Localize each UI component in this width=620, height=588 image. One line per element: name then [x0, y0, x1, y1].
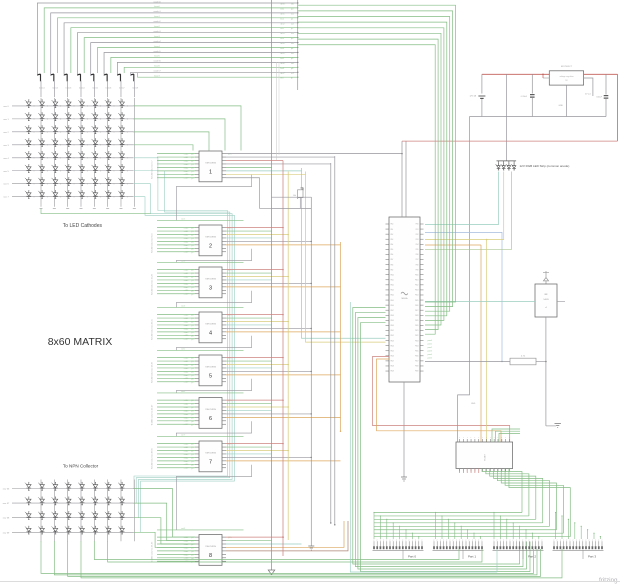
- svg-text:PB10: PB10: [415, 274, 419, 276]
- svg-text:row 0: row 0: [3, 105, 9, 108]
- svg-text:colA3: colA3: [184, 237, 189, 240]
- svg-text:colA4: colA4: [184, 327, 189, 330]
- svg-text:colA2: colA2: [184, 320, 189, 323]
- svg-text:rowdrv0: rowdrv0: [153, 1, 161, 3]
- svg-text:5V out: 5V out: [585, 93, 591, 96]
- svg-text:colA3: colA3: [184, 324, 189, 327]
- svg-text:colA4: colA4: [184, 240, 189, 243]
- svg-text:base1: base1: [154, 16, 160, 18]
- svg-text:colA7: colA7: [184, 338, 189, 341]
- svg-text:voltage regulator: voltage regulator: [559, 75, 573, 78]
- svg-text:row 5: row 5: [3, 170, 9, 173]
- svg-text:colA2: colA2: [184, 275, 189, 278]
- svg-text:PB13: PB13: [415, 290, 419, 292]
- svg-text:trans5: trans5: [92, 87, 98, 90]
- svg-text:1: 1: [209, 170, 212, 176]
- svg-text:PB6: PB6: [416, 254, 419, 256]
- svg-text:To LED Columns 48-55: To LED Columns 48-55: [152, 447, 154, 469]
- svg-text:ser4: ser4: [181, 305, 185, 307]
- svg-text:colA5: colA5: [184, 286, 189, 289]
- svg-text:colA4: colA4: [184, 550, 189, 553]
- svg-text:colA2: colA2: [184, 449, 189, 452]
- svg-text:fritzing: fritzing: [599, 577, 618, 584]
- svg-text:row 3: row 3: [3, 144, 9, 147]
- svg-text:PB24: PB24: [415, 345, 419, 347]
- svg-text:trans4: trans4: [79, 87, 85, 90]
- svg-text:PB29: PB29: [415, 371, 419, 373]
- svg-text:74HC595N: 74HC595N: [205, 453, 216, 455]
- svg-text:To LED Columns 8-15: To LED Columns 8-15: [152, 233, 154, 253]
- svg-text:trans3: trans3: [66, 87, 72, 90]
- svg-text:To LED Cathodes: To LED Cathodes: [63, 223, 103, 229]
- svg-text:base2: base2: [154, 26, 160, 28]
- svg-text:trans8: trans8: [132, 87, 138, 90]
- svg-text:row 58: row 58: [3, 517, 10, 520]
- svg-text:PB21: PB21: [415, 330, 419, 332]
- svg-text:PB25: PB25: [415, 350, 419, 352]
- svg-text:colA0: colA0: [184, 536, 189, 539]
- svg-text:ser3: ser3: [181, 260, 185, 262]
- svg-text:PB26: PB26: [415, 356, 419, 358]
- svg-text:6: 6: [209, 416, 212, 422]
- svg-text:To NPN Collector: To NPN Collector: [63, 464, 99, 469]
- svg-text:trans6: trans6: [106, 87, 112, 90]
- svg-text:colA4: colA4: [184, 282, 189, 285]
- svg-text:colA0: colA0: [184, 357, 189, 360]
- svg-text:row 1: row 1: [3, 118, 9, 121]
- svg-text:colA0: colA0: [184, 227, 189, 230]
- svg-text:colA1: colA1: [184, 272, 189, 275]
- svg-text:trans1: trans1: [39, 87, 45, 90]
- svg-text:colA0: colA0: [184, 314, 189, 317]
- svg-text:10k: 10k: [293, 195, 296, 197]
- svg-text:colA5: colA5: [184, 331, 189, 334]
- svg-text:colA2: colA2: [184, 406, 189, 409]
- svg-text:PB0: PB0: [416, 224, 419, 226]
- svg-text:MEGA: MEGA: [402, 297, 409, 300]
- svg-text:colA3: colA3: [184, 453, 189, 456]
- svg-text:12V RGB LED Strip (common anod: 12V RGB LED Strip (common anode): [520, 164, 570, 168]
- svg-text:base6: base6: [154, 66, 160, 68]
- svg-text:74HC595N: 74HC595N: [205, 163, 216, 165]
- svg-text:PB8: PB8: [416, 264, 419, 266]
- svg-text:pwm2: pwm2: [428, 347, 433, 349]
- svg-text:row 57: row 57: [3, 502, 10, 505]
- svg-text:colA6: colA6: [184, 289, 189, 292]
- svg-text:PB15: PB15: [415, 300, 419, 302]
- svg-text:colA2: colA2: [184, 233, 189, 236]
- svg-text:colA5: colA5: [184, 416, 189, 419]
- svg-text:rowdrv2: rowdrv2: [153, 21, 161, 23]
- svg-text:rowdrv1: rowdrv1: [153, 11, 161, 13]
- svg-text:rowdrv4: rowdrv4: [153, 41, 161, 43]
- svg-text:colA0: colA0: [184, 443, 189, 446]
- svg-text:colA1: colA1: [184, 156, 189, 159]
- svg-text:PB28: PB28: [415, 366, 419, 368]
- svg-text:PB11: PB11: [415, 279, 419, 281]
- svg-text:colA7: colA7: [184, 381, 189, 384]
- svg-text:74HC595N: 74HC595N: [205, 409, 216, 411]
- svg-text:pwm3: pwm3: [428, 351, 433, 353]
- svg-text:8: 8: [209, 553, 212, 559]
- svg-text:To LED Columns 32-39: To LED Columns 32-39: [152, 361, 154, 383]
- svg-text:R-NET: R-NET: [484, 453, 486, 460]
- svg-text:3: 3: [209, 286, 212, 292]
- svg-text:colA7: colA7: [184, 293, 189, 296]
- svg-text:GND: GND: [471, 403, 476, 405]
- svg-text:PB4: PB4: [416, 244, 419, 246]
- svg-text:To LED Columns 24-31: To LED Columns 24-31: [152, 318, 154, 340]
- svg-text:PB23: PB23: [415, 340, 419, 342]
- svg-text:4: 4: [209, 331, 212, 337]
- svg-text:colA0: colA0: [184, 399, 189, 402]
- svg-text:74HC595N: 74HC595N: [205, 367, 216, 369]
- svg-text:colA1: colA1: [184, 230, 189, 233]
- svg-text:colA6: colA6: [184, 377, 189, 380]
- svg-text:colA4: colA4: [184, 413, 189, 416]
- svg-text:colA6: colA6: [184, 173, 189, 176]
- svg-text:pwm4: pwm4: [428, 354, 433, 356]
- svg-text:PB19: PB19: [415, 320, 419, 322]
- svg-text:colA7: colA7: [184, 423, 189, 426]
- svg-text:base0: base0: [154, 6, 160, 8]
- svg-text:rowdrv3: rowdrv3: [153, 31, 161, 33]
- svg-text:colA7: colA7: [184, 467, 189, 470]
- svg-text:5: 5: [209, 374, 212, 380]
- svg-text:colA4: colA4: [184, 166, 189, 169]
- svg-text:GND: GND: [559, 105, 564, 107]
- svg-text:PB16: PB16: [415, 305, 419, 307]
- svg-text:colA7: colA7: [184, 177, 189, 180]
- svg-text:colA5: colA5: [184, 244, 189, 247]
- svg-text:12V 3A: 12V 3A: [469, 95, 476, 98]
- svg-text:base4: base4: [154, 46, 160, 48]
- svg-text:base3: base3: [154, 36, 160, 38]
- svg-text:PB9: PB9: [416, 269, 419, 271]
- svg-text:7: 7: [209, 460, 212, 466]
- svg-text:PB3: PB3: [416, 239, 419, 241]
- svg-text:trans7: trans7: [119, 87, 125, 90]
- svg-text:colA1: colA1: [184, 539, 189, 542]
- svg-text:colA1: colA1: [184, 402, 189, 405]
- svg-text:PB7: PB7: [416, 259, 419, 261]
- svg-text:100uF: 100uF: [596, 97, 602, 99]
- svg-text:ser7: ser7: [181, 434, 185, 436]
- svg-text:colA5: colA5: [184, 374, 189, 377]
- svg-text:row 7: row 7: [3, 196, 9, 199]
- svg-text:PB5: PB5: [416, 249, 419, 251]
- svg-text:pwm0: pwm0: [428, 340, 433, 342]
- svg-text:colA6: colA6: [184, 420, 189, 423]
- svg-text:540N: 540N: [543, 299, 549, 301]
- svg-text:8x60 MATRIX: 8x60 MATRIX: [48, 336, 113, 348]
- svg-text:74HC595N: 74HC595N: [205, 237, 216, 239]
- svg-text:To LED Columns 40-47: To LED Columns 40-47: [152, 404, 154, 426]
- svg-text:2: 2: [209, 244, 212, 250]
- svg-text:colA4: colA4: [184, 456, 189, 459]
- svg-text:74HC595N: 74HC595N: [205, 546, 216, 548]
- svg-text:colA3: colA3: [184, 279, 189, 282]
- svg-text:0.33uF: 0.33uF: [521, 96, 528, 98]
- svg-text:PB1: PB1: [416, 229, 419, 231]
- svg-text:To LED Columns 16-23: To LED Columns 16-23: [152, 273, 154, 295]
- svg-text:pwm1: pwm1: [428, 344, 433, 346]
- svg-text:row 6: row 6: [3, 183, 9, 186]
- svg-text:rowdrv7: rowdrv7: [153, 71, 161, 73]
- svg-text:base7: base7: [154, 76, 160, 78]
- svg-text:rowdrv5: rowdrv5: [153, 51, 161, 53]
- svg-text:Part 0: Part 0: [408, 555, 416, 559]
- svg-text:colA1: colA1: [184, 317, 189, 320]
- svg-text:PB22: PB22: [415, 335, 419, 337]
- svg-text:rowdrv6: rowdrv6: [153, 61, 161, 63]
- svg-text:colA4: colA4: [184, 370, 189, 373]
- svg-text:MC7805CT: MC7805CT: [561, 66, 573, 68]
- svg-text:PB27: PB27: [415, 361, 419, 363]
- svg-text:colA5: colA5: [184, 553, 189, 556]
- svg-text:row 56: row 56: [3, 488, 10, 491]
- svg-text:Part 1: Part 1: [468, 555, 476, 559]
- svg-text:colA5: colA5: [184, 460, 189, 463]
- svg-text:colA2: colA2: [184, 363, 189, 366]
- svg-text:PB20: PB20: [415, 325, 419, 327]
- svg-text:trans2: trans2: [52, 87, 58, 90]
- svg-text:ser8: ser8: [181, 528, 185, 530]
- svg-text:ser6: ser6: [181, 391, 185, 393]
- svg-text:colA2: colA2: [184, 159, 189, 162]
- svg-text:colA7: colA7: [184, 251, 189, 254]
- svg-text:74HC595N: 74HC595N: [205, 279, 216, 281]
- svg-text:colA0: colA0: [184, 153, 189, 156]
- svg-text:pwm5: pwm5: [428, 358, 433, 360]
- svg-text:row 59: row 59: [3, 531, 10, 534]
- svg-text:base5: base5: [154, 56, 160, 58]
- svg-text:colA6: colA6: [184, 247, 189, 250]
- svg-text:PB2: PB2: [416, 234, 419, 236]
- svg-text:row 4: row 4: [3, 157, 9, 160]
- svg-text:PB14: PB14: [415, 295, 419, 297]
- svg-text:colA5: colA5: [184, 170, 189, 173]
- svg-text:colA3: colA3: [184, 409, 189, 412]
- svg-text:PB17: PB17: [415, 310, 419, 312]
- svg-text:colA6: colA6: [184, 334, 189, 337]
- svg-text:Part 3: Part 3: [588, 555, 596, 559]
- svg-text:ser5: ser5: [181, 348, 185, 350]
- svg-text:row 2: row 2: [3, 131, 9, 134]
- svg-text:PB12: PB12: [415, 285, 419, 287]
- svg-text:To LED Columns 0-7: To LED Columns 0-7: [152, 160, 154, 179]
- svg-text:colA1: colA1: [184, 446, 189, 449]
- svg-text:ser2: ser2: [181, 218, 185, 220]
- svg-text:74HC595N: 74HC595N: [205, 324, 216, 326]
- svg-text:colA3: colA3: [184, 546, 189, 549]
- svg-text:PB18: PB18: [415, 315, 419, 317]
- svg-text:Part 2: Part 2: [528, 555, 536, 559]
- svg-text:colA6: colA6: [184, 463, 189, 466]
- svg-text:colA0: colA0: [184, 269, 189, 272]
- svg-text:colA2: colA2: [184, 543, 189, 546]
- svg-text:colA3: colA3: [184, 367, 189, 370]
- svg-text:colA3: colA3: [184, 163, 189, 166]
- svg-text:colA1: colA1: [184, 360, 189, 363]
